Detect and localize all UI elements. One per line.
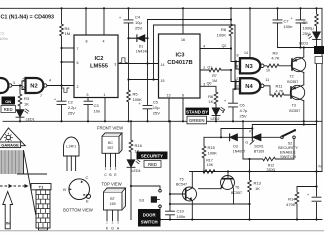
wire right border vertical: [321, 8, 323, 171]
svg-text:13: 13: [235, 84, 239, 88]
svg-text:100n: 100n: [284, 24, 293, 29]
svg-text:T3: T3: [292, 104, 296, 108]
svg-text:4: 4: [203, 45, 205, 49]
svg-text:C: C: [86, 175, 89, 180]
svg-text:LED3: LED3: [299, 41, 308, 45]
svg-text:CD4017B: CD4017B: [167, 60, 192, 66]
wire IC3 Q0 pin3 to R6: [200, 86, 216, 92]
wire D1 right to clock node: [147, 38, 149, 63]
svg-text:100K: 100K: [217, 33, 227, 38]
wire IC2 pin3 clock line: [118, 63, 159, 65]
svg-text:4.7K: 4.7K: [271, 56, 280, 61]
wire y204: [170, 203, 250, 205]
wire D3 line: [204, 136, 252, 138]
svg-text:1000µ: 1000µ: [303, 26, 315, 31]
svg-text:10µ: 10µ: [135, 20, 142, 25]
svg-text:RED: RED: [148, 162, 157, 167]
svg-text:557: 557: [108, 146, 114, 150]
svg-text:R9: R9: [272, 50, 278, 55]
svg-text:25V: 25V: [153, 111, 160, 116]
svg-text:1K: 1K: [24, 101, 29, 106]
svg-text:LED2: LED2: [211, 117, 220, 121]
svg-text:DOOR: DOOR: [143, 212, 157, 217]
wire N4 output jog: [264, 86, 272, 95]
wire C10 vertical: [166, 121, 175, 219]
transistor T3 BC557: [290, 85, 304, 99]
resistor R4 1M: [60, 8, 64, 62]
svg-text:BC557: BC557: [289, 109, 300, 113]
svg-text:R16: R16: [135, 143, 143, 148]
svg-text:6: 6: [77, 61, 79, 65]
svg-text:R17: R17: [206, 158, 213, 162]
wire long latch line y171.5: [190, 171, 323, 173]
garage house drawing: [0, 128, 47, 215]
svg-text:2: 2: [77, 85, 79, 89]
phototransistor T1 box on wall: [31, 184, 51, 190]
label box STAND BY: [186, 108, 210, 115]
svg-text:IN: IN: [318, 165, 322, 169]
diagram IC3 CD4017B box: [159, 34, 201, 98]
resistor R12 330: [243, 121, 294, 161]
wire second line y124.5: [252, 125, 316, 134]
svg-text:IC3: IC3: [175, 53, 185, 59]
svg-text:9: 9: [236, 65, 238, 69]
svg-text:4: 4: [103, 39, 105, 43]
svg-text:RED: RED: [4, 107, 13, 112]
label box RED2: [144, 161, 161, 168]
wire IC3 pin8 to ground: [182, 98, 184, 121]
resistor R16 1K on LED4: [129, 121, 133, 159]
LED2 green: [212, 104, 220, 121]
svg-text:FRONT VIEW: FRONT VIEW: [97, 125, 123, 130]
transistor package L14F1: [64, 137, 80, 171]
wire R4 to IC2 pin7: [62, 47, 75, 49]
svg-text:3: 3: [114, 63, 116, 67]
svg-text:C2: C2: [68, 99, 74, 104]
resistor R6 1K: [214, 92, 218, 104]
resistor R17 10K: [203, 170, 215, 174]
svg-text:1M: 1M: [65, 31, 71, 36]
svg-text:C3: C3: [94, 103, 100, 108]
wire output node to motor box: [278, 47, 315, 49]
wire IC2 pin4 to rail: [103, 8, 105, 35]
wire IC3 pin16 to rail: [182, 8, 184, 34]
diode D1 1N4148: [129, 35, 148, 42]
capacitor C5 10u on clock node: [143, 64, 152, 122]
wire IC2 pin8 to rail: [85, 8, 87, 35]
wire LED4 node down to bottom rail: [130, 186, 132, 220]
svg-text:25V: 25V: [240, 114, 247, 119]
resistor R10: [315, 8, 319, 31]
svg-text:T6: T6: [235, 186, 239, 190]
svg-text:C4: C4: [135, 15, 141, 20]
gate N1 partial at left edge: [0, 78, 8, 93]
svg-text:25V: 25V: [135, 26, 142, 31]
svg-text:14: 14: [244, 51, 248, 55]
brick wall: [36, 190, 50, 230]
svg-text:2: 2: [203, 66, 205, 70]
dashed light beam arrows: [0, 184, 29, 188]
capacitor C3 10n on pin5: [84, 98, 93, 122]
svg-text:12: 12: [234, 77, 238, 81]
wire pin15 reset line: [129, 79, 159, 81]
gate N2: [26, 78, 44, 93]
gate N3: [240, 58, 260, 73]
diode D3 1N4007: [229, 134, 231, 141]
svg-text:E: E: [86, 199, 89, 204]
bottom gray border line: [0, 230, 324, 232]
svg-text:R15: R15: [208, 145, 216, 150]
svg-text:2.2µ: 2.2µ: [68, 105, 77, 110]
label box SECURITY: [137, 152, 168, 160]
svg-text:R5: R5: [133, 92, 139, 97]
label box DOOR SWITCH: [138, 209, 161, 227]
capacitor C4 10u: [124, 8, 133, 38]
svg-text:1K: 1K: [135, 148, 140, 153]
wire T3 collector down: [303, 101, 305, 125]
wire inner loop pin15 over IC3 to N4: [154, 25, 236, 89]
svg-text:BT169: BT169: [254, 150, 265, 154]
svg-text:SWITCH: SWITCH: [280, 154, 296, 159]
svg-text:8: 8: [237, 54, 239, 58]
wire outer loop D1 over IC3 to R8: [148, 20, 232, 39]
svg-text:1N4007: 1N4007: [233, 150, 246, 154]
label box motor right edge white: [315, 57, 323, 64]
svg-text:1K: 1K: [208, 99, 213, 104]
resistor R11 4.7K: [272, 93, 290, 97]
svg-text:N2: N2: [30, 84, 37, 90]
svg-text:7: 7: [40, 94, 42, 98]
svg-text:R14: R14: [288, 197, 296, 202]
label box GREEN: [187, 116, 207, 124]
LED4 security red: [127, 167, 135, 186]
SCR1 BT169: [251, 134, 253, 141]
svg-text:100n: 100n: [177, 214, 186, 219]
svg-text:16: 16: [181, 38, 185, 42]
svg-text:1: 1: [104, 93, 106, 97]
svg-text:T2: T2: [289, 75, 293, 79]
capacitor C8 1000u: [296, 8, 305, 47]
wire ground rail mid: [3, 120, 322, 122]
svg-text:Q0: Q0: [207, 82, 212, 86]
svg-text:4.7K: 4.7K: [275, 89, 284, 94]
svg-text:10: 10: [266, 68, 270, 72]
svg-text:Q2: Q2: [222, 44, 227, 48]
transistor T5 BC547: [183, 187, 197, 201]
svg-text:5: 5: [23, 77, 25, 81]
svg-text:GREEN: GREEN: [189, 118, 205, 123]
transistor T2 BC557: [291, 57, 305, 71]
svg-text:C: C: [104, 173, 107, 177]
resistor R5 100K: [127, 90, 131, 121]
resistor R8 100K: [229, 8, 233, 48]
svg-text:C8: C8: [303, 20, 309, 25]
svg-text:G: G: [111, 226, 114, 230]
LED3: [313, 40, 321, 46]
svg-text:LM555: LM555: [90, 64, 109, 70]
svg-text:S3: S3: [139, 198, 145, 203]
svg-text:4: 4: [49, 78, 51, 82]
resistor R14 470K: [295, 187, 316, 220]
svg-text:100K: 100K: [208, 151, 218, 156]
svg-text:L14F1: L14F1: [66, 145, 76, 149]
resistor R9 4.7K: [264, 64, 292, 68]
svg-text:GARAGE: GARAGE: [1, 143, 19, 148]
svg-text:5: 5: [87, 93, 89, 97]
svg-text:BC: BC: [108, 141, 113, 145]
svg-text:BC547: BC547: [176, 183, 187, 187]
svg-text:BT: BT: [110, 197, 115, 201]
svg-text:D1: D1: [139, 45, 144, 49]
svg-text:BC557: BC557: [231, 191, 242, 195]
svg-text:IN: IN: [6, 222, 10, 226]
svg-text:ON: ON: [5, 99, 11, 104]
wire N2 inputs: [22, 81, 26, 90]
capacitor C6 4.7u: [229, 89, 238, 121]
switch S3 door switch: [131, 186, 160, 220]
wire N1 output node: [12, 85, 22, 87]
svg-text:T1: T1: [39, 185, 44, 190]
svg-text:LED1: LED1: [26, 118, 35, 122]
svg-text:N3: N3: [245, 64, 253, 70]
wire Q1 node down to N4: [231, 70, 240, 82]
svg-text:BOTTOM VIEW: BOTTOM VIEW: [63, 207, 93, 212]
svg-text:3: 3: [203, 83, 205, 87]
capacitor C7 100n: [273, 8, 282, 47]
svg-text:N4: N4: [245, 84, 253, 90]
svg-text:7: 7: [77, 47, 79, 51]
svg-text:14: 14: [161, 63, 165, 67]
svg-text:330Ω: 330Ω: [266, 168, 275, 172]
svg-text:TOP VIEW: TOP VIEW: [101, 182, 121, 187]
svg-text:D3: D3: [233, 144, 238, 148]
svg-text:BC557: BC557: [287, 80, 298, 84]
svg-text:B: B: [63, 187, 66, 192]
svg-text:C5: C5: [153, 100, 159, 105]
svg-text:3: 3: [13, 81, 15, 85]
capacitor C9: [312, 197, 321, 201]
svg-text:C10: C10: [177, 209, 185, 214]
resistor R7 1M on Q1: [200, 68, 231, 72]
svg-text:Q1: Q1: [207, 65, 212, 69]
svg-text:100K: 100K: [133, 97, 143, 102]
svg-text:C7: C7: [284, 19, 290, 24]
wire top supply rail: [0, 7, 322, 9]
svg-text:100n: 100n: [0, 36, 8, 41]
wire N3 supply pin14: [249, 8, 251, 58]
pulse symbol at pin2: [62, 88, 69, 92]
svg-text:6: 6: [23, 86, 25, 90]
op-amp IC2 LM555 box: [74, 35, 118, 98]
resistor R3 1K: [18, 86, 22, 107]
wire right column lower: [316, 64, 318, 220]
gate N4: [240, 78, 260, 93]
svg-text:1M: 1M: [212, 79, 217, 83]
svg-text:C1 (N1-N4) = CD4093: C1 (N1-N4) = CD4093: [1, 15, 54, 21]
svg-text:25V: 25V: [303, 31, 310, 36]
wire N4 input tie: [236, 82, 240, 90]
svg-text:G: G: [245, 141, 248, 145]
capacitor C2 2.2u: [57, 86, 66, 122]
svg-text:LED4: LED4: [132, 169, 141, 173]
svg-text:4.7µ: 4.7µ: [240, 108, 249, 113]
wire T5 base: [170, 193, 186, 195]
svg-text:R12: R12: [268, 163, 275, 167]
wire S2 to R12: [293, 139, 295, 159]
svg-text:8: 8: [86, 39, 88, 43]
switch S2 security enable: [281, 136, 284, 139]
wire SCR cathode K: [221, 129, 252, 138]
svg-text:11: 11: [266, 78, 270, 82]
svg-text:C6: C6: [240, 103, 246, 108]
wire R4 to IC2 pin6: [62, 62, 75, 86]
svg-text:15: 15: [161, 79, 165, 83]
resistor R15 100K: [202, 137, 206, 171]
wire N2 output to IC2 pin2: [47, 85, 74, 87]
svg-text:13: 13: [167, 93, 171, 97]
wire C6 to N4 input: [233, 88, 236, 90]
label box ON: [2, 97, 16, 105]
svg-text:SWITCH: SWITCH: [141, 219, 158, 224]
svg-text:SECURITY: SECURITY: [141, 154, 163, 159]
svg-text:R13: R13: [254, 180, 262, 185]
svg-text:10µ: 10µ: [153, 105, 160, 110]
svg-text:T5: T5: [179, 178, 183, 182]
svg-text:R8: R8: [221, 27, 227, 32]
LED1 red: [16, 106, 24, 121]
pulse symbol at pin3: [120, 58, 128, 63]
svg-text:8: 8: [182, 93, 184, 97]
transistor T6 BC557: [221, 176, 235, 190]
wire T6 emitter left: [199, 188, 221, 190]
svg-text:R7: R7: [212, 74, 217, 78]
bottom view circle: [69, 179, 91, 200]
svg-text:STAND BY: STAND BY: [186, 109, 208, 114]
IN arrow: [3, 192, 13, 229]
wire N3 input tie: [236, 62, 240, 70]
wire IC2 pin1 to ground: [104, 98, 106, 122]
svg-text:470K: 470K: [286, 202, 296, 207]
wire C4 branch down to pin15 line: [128, 38, 130, 90]
wire bottom rail: [148, 219, 322, 221]
svg-text:1K: 1K: [255, 186, 260, 191]
svg-text:10n: 10n: [94, 108, 101, 113]
wire IC3 Q2 pin4 to R8 node and N3: [200, 49, 240, 62]
svg-text:25V: 25V: [68, 111, 75, 116]
wire T6 collector down: [233, 189, 235, 204]
label box motor right edge black: [314, 46, 324, 54]
wire IC3 pin13 to ground: [168, 98, 170, 121]
label box RED1: [1, 106, 16, 113]
svg-text:169: 169: [110, 202, 116, 206]
svg-text:SCR1: SCR1: [254, 145, 264, 149]
svg-text:IC2: IC2: [94, 56, 103, 62]
svg-text:10K: 10K: [207, 163, 214, 167]
resistor R13 1K: [248, 159, 252, 220]
svg-text:1N4148: 1N4148: [136, 50, 149, 54]
